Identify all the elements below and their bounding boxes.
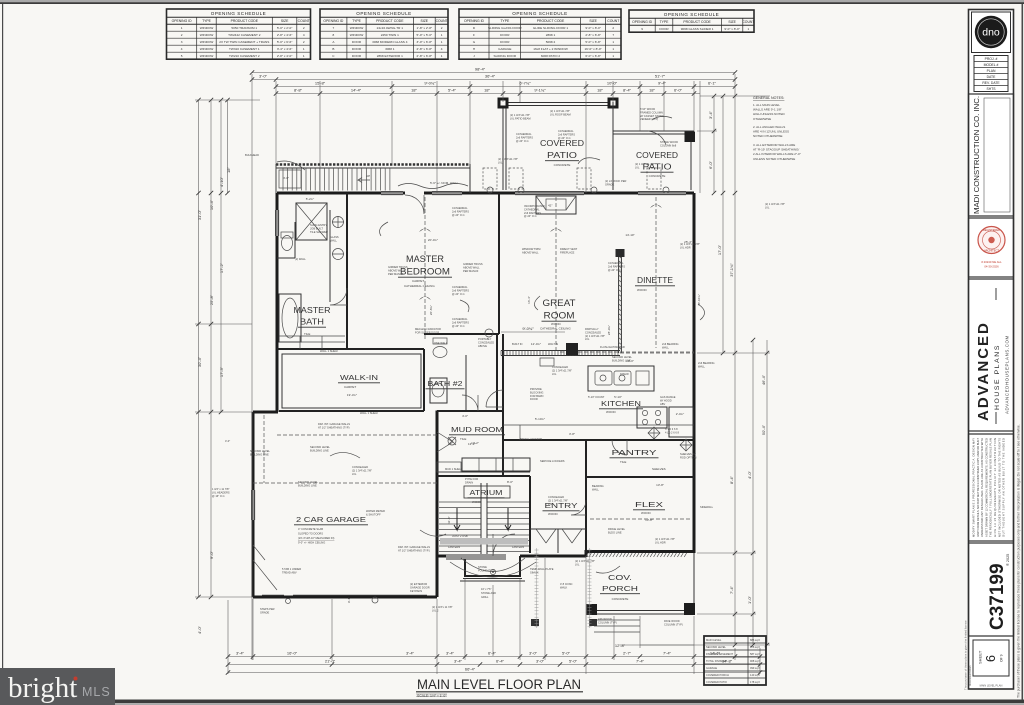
porch hatch ticks along wall xyxy=(586,553,687,557)
svg-text:18″: 18″ xyxy=(649,88,655,93)
stair treads flight 2 xyxy=(357,168,390,191)
svg-text:CATHEDRAL CEILING: CATHEDRAL CEILING xyxy=(404,284,435,288)
svg-text:16′ x 7′6″: 16′ x 7′6″ xyxy=(481,587,491,591)
red stamp seal xyxy=(978,227,1005,254)
covered patio 1 top edge xyxy=(503,102,613,104)
project info table xyxy=(974,56,1008,92)
svg-text:1′-8″ x 2′-8″: 1′-8″ x 2′-8″ xyxy=(417,26,433,30)
svg-text:9′-0″ +/- HIGH CEILING: 9′-0″ +/- HIGH CEILING xyxy=(298,541,325,545)
svg-text:DISHW: DISHW xyxy=(620,372,629,376)
svg-text:CONCRETE: CONCRETE xyxy=(554,163,571,167)
svg-text:MLS: MLS xyxy=(82,685,111,699)
svg-text:TYPE: TYPE xyxy=(352,19,362,23)
svg-text:DOOR: DOOR xyxy=(352,54,362,58)
legal fine print box xyxy=(969,434,1014,541)
svg-text:7′-4″: 7′-4″ xyxy=(729,585,734,594)
window: master bedroom top wall xyxy=(381,191,403,196)
svg-text:WINDOW: WINDOW xyxy=(200,47,214,51)
svg-text:3′-0″: 3′-0″ xyxy=(529,651,538,656)
kitchen island flush eating bar xyxy=(588,366,654,391)
svg-text:B: B xyxy=(332,47,334,51)
svg-text:SECOND LEVELBUILDING LINE: SECOND LEVELBUILDING LINE xyxy=(310,445,330,452)
C37199 plan number box xyxy=(969,543,1014,636)
svg-text:21′-0″: 21′-0″ xyxy=(325,659,336,664)
svg-text:10′-4″: 10′-4″ xyxy=(209,199,214,210)
svg-text:DOOR: DOOR xyxy=(352,47,362,51)
bottom dimension lines xyxy=(228,657,760,673)
svg-text:51′-7″: 51′-7″ xyxy=(655,74,666,79)
svg-text:H: H xyxy=(473,47,475,51)
svg-text:KITCHEN: KITCHEN xyxy=(601,399,641,408)
svg-text:OUT THOUGHT SUPPLY AN OTHER BU: OUT THOUGHT SUPPLY AN OTHER BUILT TO THE… xyxy=(1002,438,1006,537)
svg-text:9′-0¾″: 9′-0¾″ xyxy=(424,81,436,86)
atrium stair center stringer xyxy=(481,483,487,556)
stoop side step blocks xyxy=(531,619,539,626)
room label ATRIUM xyxy=(464,486,510,498)
svg-text:18″: 18″ xyxy=(484,88,490,93)
svg-text:WINDOW: WINDOW xyxy=(200,26,214,30)
svg-text:PANTRY: PANTRY xyxy=(612,448,657,457)
svg-text:3′-4″: 3′-4″ xyxy=(406,651,415,656)
svg-text:TW310 CASEMENT 1: TW310 CASEMENT 1 xyxy=(229,47,260,51)
entry door arc xyxy=(493,534,515,556)
svg-text:ADVANCEDHOUSEPLANS.COM: ADVANCEDHOUSEPLANS.COM xyxy=(1005,335,1010,414)
svg-text:66′-4″: 66′-4″ xyxy=(465,667,476,672)
svg-text:3′-4″: 3′-4″ xyxy=(708,110,713,119)
garage bottom-left corner braces xyxy=(253,545,277,590)
svg-text:8′-0″: 8′-0″ xyxy=(507,480,513,484)
svg-text:1: 1 xyxy=(303,47,305,51)
sheet bottom gray margin xyxy=(0,703,1024,705)
svg-text:1: 1 xyxy=(612,54,614,58)
svg-text:ARCHITECT: ARCHITECT xyxy=(984,249,999,253)
bath2 door arc xyxy=(462,395,478,411)
svg-text:24x16 AWNG-TR 1: 24x16 AWNG-TR 1 xyxy=(377,26,404,30)
svg-text:5′-10¾″: 5′-10¾″ xyxy=(535,417,545,421)
svg-text:WALT IN: WALT IN xyxy=(548,342,558,346)
ahp logo black circle xyxy=(975,16,1007,48)
svg-text:MECH/AC RADIATORFOR SLIDER DOO: MECH/AC RADIATORFOR SLIDER DOOR xyxy=(415,327,441,334)
svg-text:8: 8 xyxy=(333,33,335,37)
svg-text:UP: UP xyxy=(366,174,370,178)
wall: atrium top xyxy=(437,475,530,477)
svg-text:9′-4″: 9′-4″ xyxy=(347,597,351,603)
svg-text:16′-4″: 16′-4″ xyxy=(527,296,531,304)
fridge xyxy=(669,407,693,437)
svg-text:CONCRETE: CONCRETE xyxy=(612,597,629,601)
svg-text:WOOD: WOOD xyxy=(606,410,616,414)
svg-text:6′-7¾″: 6′-7¾″ xyxy=(519,81,531,86)
top dim extension verticals xyxy=(252,74,735,660)
svg-text:SECOND LEVELBUILDING LINE: SECOND LEVELBUILDING LINE xyxy=(612,355,632,362)
svg-text:WALL 1 SHELF: WALL 1 SHELF xyxy=(360,411,379,415)
round column markers on wall xyxy=(487,187,493,193)
svg-text:5′-6″ +/- NOM. HIGH: 5′-6″ +/- NOM. HIGH xyxy=(430,181,457,185)
svg-text:28′-9¾″: 28′-9¾″ xyxy=(607,325,611,335)
range xyxy=(637,407,667,428)
exterior wall: front portico recess xyxy=(465,556,520,576)
linen shelves above walk-in xyxy=(279,336,345,349)
svg-text:2′-8″ x 6′-8″: 2′-8″ x 6′-8″ xyxy=(417,47,433,51)
svg-text:SHTS: SHTS xyxy=(986,87,996,91)
svg-text:PRODUCT CODE: PRODUCT CODE xyxy=(683,20,711,24)
kitchen counter along great room xyxy=(501,351,620,356)
exterior wall: garage bottom xyxy=(253,596,437,599)
svg-text:1: 1 xyxy=(612,40,614,44)
svg-text:2′-8″ x 6′-8″: 2′-8″ x 6′-8″ xyxy=(585,33,601,37)
svg-text:5′-4″: 5′-4″ xyxy=(448,88,457,93)
svg-text:OPENING SCHEDULE: OPENING SCHEDULE xyxy=(211,11,266,16)
stair down arrows xyxy=(454,508,460,530)
svg-text:DIM. INT. GARAGE WALLSAT 1/2″: DIM. INT. GARAGE WALLSAT 1/2″ SHEATHING … xyxy=(318,422,350,429)
svg-text:WOOD: WOOD xyxy=(472,500,482,504)
svg-text:GREAT: GREAT xyxy=(543,298,577,308)
svg-text:13′-8″: 13′-8″ xyxy=(645,518,653,522)
svg-text:16′-0″: 16′-0″ xyxy=(287,651,298,656)
svg-text:MASTER: MASTER xyxy=(406,254,444,264)
svg-text:3′-4″: 3′-4″ xyxy=(454,659,463,664)
svg-text:BUILT IN: BUILT IN xyxy=(512,342,523,346)
svg-text:4′-0″: 4′-0″ xyxy=(462,414,468,418)
svg-text:18″: 18″ xyxy=(597,88,603,93)
glass wall note line xyxy=(329,222,331,240)
opening schedule table at x=166.5 xyxy=(167,9,311,59)
svg-text:2: 2 xyxy=(441,26,443,30)
svg-text:6′-4″: 6′-4″ xyxy=(488,651,497,656)
right dimension lines xyxy=(714,96,767,645)
svg-text:9′-0″ x 8′-0″: 9′-0″ x 8′-0″ xyxy=(585,26,601,30)
svg-text:MADI CONSTRUCTION CO. INC.: MADI CONSTRUCTION CO. INC. xyxy=(972,96,981,214)
svg-text:12′-8″: 12′-8″ xyxy=(615,643,626,648)
svg-text:LANTERN: LANTERN xyxy=(448,545,460,549)
stair landing box xyxy=(279,170,301,188)
svg-text:COVERED PORCH: COVERED PORCH xyxy=(706,673,729,677)
svg-text:FLEX: FLEX xyxy=(635,500,663,509)
svg-text:SECOND LEVELBUILDING LINE: SECOND LEVELBUILDING LINE xyxy=(298,480,318,487)
svg-text:18″: 18″ xyxy=(411,88,417,93)
wall: entry left xyxy=(529,476,531,553)
svg-text:2′-0¾″: 2′-0¾″ xyxy=(676,412,684,416)
svg-text:30′-4″: 30′-4″ xyxy=(197,356,202,367)
svg-text:FINISHED BASEMENT: FINISHED BASEMENT xyxy=(706,652,734,656)
master bath door arc xyxy=(330,288,347,305)
svg-text:DOOR: DOOR xyxy=(500,40,510,44)
svg-text:SIZE: SIZE xyxy=(728,20,736,24)
svg-text:4′-0″: 4′-0″ xyxy=(283,176,289,180)
svg-text:SECOND LEVELBUILDING LINE: SECOND LEVELBUILDING LINE xyxy=(250,449,270,456)
wall: kitchen west xyxy=(502,334,504,476)
svg-text:WALL 1 SHELF: WALL 1 SHELF xyxy=(320,349,339,353)
walk-in inner wall lines xyxy=(282,354,421,408)
exterior wall: front wall left of portico xyxy=(437,555,465,558)
svg-text:BATH: BATH xyxy=(300,317,324,326)
svg-text:5050 TRANSOM 1: 5050 TRANSOM 1 xyxy=(231,26,257,30)
svg-text:9′-0¾″: 9′-0¾″ xyxy=(522,326,534,331)
svg-text:2X TW TWIN CASEMENT + TRANS: 2X TW TWIN CASEMENT + TRANS xyxy=(219,40,269,44)
svg-text:5′-0″ x 2′-0″: 5′-0″ x 2′-0″ xyxy=(277,26,293,30)
mud room door arcs xyxy=(437,432,453,452)
svg-text:LANTERN: LANTERN xyxy=(512,545,524,549)
svg-text:2′-8″ x 6′-8″: 2′-8″ x 6′-8″ xyxy=(417,54,433,58)
svg-text:13′-8″: 13′-8″ xyxy=(656,483,664,487)
svg-text:MUD ROOM: MUD ROOM xyxy=(451,425,503,434)
svg-text:18″: 18″ xyxy=(226,166,231,172)
stair UP arrow xyxy=(358,177,370,182)
deck edge band above stairs xyxy=(276,163,470,166)
svg-text:WINDOW: WINDOW xyxy=(350,33,364,37)
svg-text:WOOD: WOOD xyxy=(551,322,561,326)
svg-text:TILE: TILE xyxy=(304,332,310,336)
svg-text:878 sq ft: 878 sq ft xyxy=(750,645,760,649)
wall: master suite bottom / walk-in top xyxy=(277,348,424,350)
svg-text:9′-1¾″: 9′-1¾″ xyxy=(534,88,546,93)
svg-text:MODIFIED 6/4/25: MODIFIED 6/4/25 xyxy=(968,665,972,686)
svg-text:20′-8¾″: 20′-8¾″ xyxy=(429,305,433,315)
svg-text:3′-0″: 3′-0″ xyxy=(259,74,268,79)
svg-text:C37199: C37199 xyxy=(987,563,1008,630)
wall: master bath - bedroom divider xyxy=(346,193,348,349)
sheet top border line xyxy=(0,2,1024,4)
sheet right border line xyxy=(1022,4,1024,700)
vanity wall + sinks xyxy=(329,210,331,302)
svg-text:3068 1: 3068 1 xyxy=(385,47,395,51)
kitchen sink symbols (wall counter) xyxy=(540,358,554,366)
svg-text:BENCH LOCKERS: BENCH LOCKERS xyxy=(520,437,542,441)
svg-text:2: 2 xyxy=(181,33,183,37)
exterior wall: garage left xyxy=(252,412,255,597)
opening schedule table at x=629 xyxy=(629,10,754,32)
svg-text:F: F xyxy=(473,33,475,37)
sheet bottom border line xyxy=(0,700,1024,704)
svg-text:(23′-4″x28′-10″ MEASURED IN): (23′-4″x28′-10″ MEASURED IN) xyxy=(298,536,335,540)
svg-text:SECOND LEVEL: SECOND LEVEL xyxy=(706,645,726,649)
svg-text:NOT INCLUDED OTHERWISE OR NOTE: NOT INCLUDED OTHERWISE OR NOTED AS BUILD… xyxy=(997,438,1001,537)
svg-text:DOOR: DOOR xyxy=(659,27,669,31)
svg-text:COUNT: COUNT xyxy=(298,19,310,23)
exterior wall: house left (master suite) xyxy=(276,193,279,412)
stair treads flight 1 xyxy=(283,168,352,191)
fireplace xyxy=(536,196,576,214)
svg-text:REGISTERED: REGISTERED xyxy=(983,228,1000,232)
exterior wall: entry front xyxy=(520,550,586,557)
exterior wall: flex bottom xyxy=(585,550,696,553)
svg-text:GLIDE SLIDING DOOR 1: GLIDE SLIDING DOOR 1 xyxy=(533,26,569,30)
svg-text:9′-0″: 9′-0″ xyxy=(209,550,214,559)
covered patio 2 top edge xyxy=(613,130,694,132)
svg-text:5′-0″ x 6′-6″: 5′-0″ x 6′-6″ xyxy=(277,40,293,44)
svg-text:UNDERSTAND ANY DESIGN USED. PL: UNDERSTAND ANY DESIGN USED. PLANS ARE AS… xyxy=(980,438,984,537)
svg-text:FLUSH EATING BAR: FLUSH EATING BAR xyxy=(600,345,625,349)
svg-text:3: 3 xyxy=(181,40,183,44)
svg-text:7: 7 xyxy=(612,33,614,37)
second level building line (garage) xyxy=(253,415,437,483)
svg-text:1: 1 xyxy=(181,26,183,30)
svg-text:4′-10″: 4′-10″ xyxy=(219,176,224,187)
svg-text:MASTER: MASTER xyxy=(294,306,331,315)
exterior wall: house right xyxy=(693,193,696,552)
svg-text:886 sq ft: 886 sq ft xyxy=(750,638,760,642)
svg-text:2′-8″ x 4′-6″: 2′-8″ x 4′-6″ xyxy=(277,33,293,37)
svg-text:3′-0″ x 6′-8″: 3′-0″ x 6′-8″ xyxy=(417,40,433,44)
ceiling ridge dashed centerlines xyxy=(424,197,426,340)
svg-text:3. ALL EXTERIOR WALLS AREAT ′R: 3. ALL EXTERIOR WALLS AREAT ′R-19′ STAGG… xyxy=(753,143,801,161)
svg-text:SLIDING DOOR: SLIDING DOOR xyxy=(494,54,517,58)
svg-text:20′-0¾″: 20′-0¾″ xyxy=(428,238,438,242)
svg-text:OPENING ID: OPENING ID xyxy=(632,20,653,24)
covered patio 1 left edge xyxy=(503,102,506,190)
patio column footing dashed boxes xyxy=(483,168,497,189)
top dimension line 3 xyxy=(276,86,735,88)
svg-text:MAIN LEVEL FLOOR PLAN: MAIN LEVEL FLOOR PLAN xyxy=(417,677,581,692)
svg-text:ADVANCED: ADVANCED xyxy=(975,321,992,421)
svg-text:15′-8″: 15′-8″ xyxy=(315,81,326,86)
svg-text:7′-4″: 7′-4″ xyxy=(636,659,645,664)
svg-text:WINDOW: WINDOW xyxy=(200,40,214,44)
svg-text:TYPE: TYPE xyxy=(660,20,670,24)
svg-text:19′-3¾″: 19′-3¾″ xyxy=(347,393,357,397)
svg-text:9068 GLASS SLIDER 1: 9068 GLASS SLIDER 1 xyxy=(681,27,714,31)
sheet number box xyxy=(973,640,1009,676)
atrium landing gray sill xyxy=(440,538,528,545)
svg-text:3′-8″: 3′-8″ xyxy=(569,432,575,436)
wall: walk-in / bath2 divider xyxy=(423,349,425,411)
covered patio 2 left edge xyxy=(612,102,614,190)
svg-text:6′-0″ x 6′-8″: 6′-0″ x 6′-8″ xyxy=(585,54,601,58)
opening schedule table at x=320 xyxy=(320,9,448,59)
svg-text:SIZE: SIZE xyxy=(421,19,429,23)
wall: bath2 linen divider xyxy=(465,355,467,411)
svg-text:SCALE: 1/4″ = 1′-0″: SCALE: 1/4″ = 1′-0″ xyxy=(417,694,447,698)
svg-text:36′-4″: 36′-4″ xyxy=(485,74,496,79)
svg-text:5′-2¾″: 5′-2¾″ xyxy=(306,197,314,201)
atrium stair treads right flight xyxy=(487,502,529,552)
shower with X xyxy=(296,203,327,240)
svg-text:25′-8″: 25′-8″ xyxy=(209,294,214,305)
sheet top gray margin xyxy=(0,0,1024,2)
svg-text:dno: dno xyxy=(982,27,1000,39)
svg-text:31′-0″: 31′-0″ xyxy=(197,209,202,220)
svg-text:3′-4″ x 4′-6″: 3′-4″ x 4′-6″ xyxy=(277,47,293,51)
svg-text:2450 TWIN 1: 2450 TWIN 1 xyxy=(381,33,399,37)
svg-text:SLOPED TO DOORS: SLOPED TO DOORS xyxy=(298,532,323,536)
svg-text:TW210 CASEMENT 2: TW210 CASEMENT 2 xyxy=(229,54,260,58)
svg-text:COVERED: COVERED xyxy=(636,151,678,160)
wall: entry closet xyxy=(530,529,586,553)
svg-text:DINETTE: DINETTE xyxy=(637,276,673,285)
wall: entry / flex left + pantry left xyxy=(585,440,587,553)
svg-text:140 sq ft: 140 sq ft xyxy=(750,673,760,677)
svg-text:17′-2″: 17′-2″ xyxy=(219,262,224,273)
svg-text:16′-0″ x 8′-0″: 16′-0″ x 8′-0″ xyxy=(584,47,602,51)
svg-text:MAIN LEVEL PLAN: MAIN LEVEL PLAN xyxy=(980,684,1003,688)
svg-text:CARPET: CARPET xyxy=(412,279,424,283)
atrium stair treads left flight xyxy=(439,502,481,552)
dog wash xyxy=(448,437,456,445)
svg-text:COUNT: COUNT xyxy=(742,20,754,24)
svg-text:STONE WOODCOLUMN 8x8: STONE WOODCOLUMN 8x8 xyxy=(660,140,678,147)
svg-text:6068 PATIO 2: 6068 PATIO 2 xyxy=(541,54,560,58)
svg-text:1′-0″: 1′-0″ xyxy=(747,595,752,604)
title block outer border xyxy=(969,10,1014,690)
second level building line (flex) xyxy=(590,518,690,520)
bath2 toilet xyxy=(433,347,447,358)
svg-text:7: 7 xyxy=(333,26,335,30)
svg-text:THE PERIODICALLY 7 FULL UNDERS: THE PERIODICALLY 7 FULL UNDERSTATE PLAN … xyxy=(989,438,993,537)
covered patio 2 right edge xyxy=(690,134,692,190)
wall: pantry bottom / flex top xyxy=(586,476,694,478)
svg-text:SHELVES W/ROD OPTION: SHELVES W/ROD OPTION xyxy=(680,452,697,459)
mud bench lockers xyxy=(462,458,530,471)
porch slab edges xyxy=(594,611,694,615)
wall: master bedroom right xyxy=(498,193,500,334)
svg-text:TW2442 CASEMENT 2: TW2442 CASEMENT 2 xyxy=(228,33,261,37)
svg-text:PLAN: PLAN xyxy=(987,69,996,73)
svg-text:6′-0″: 6′-0″ xyxy=(674,88,683,93)
svg-text:GENERAL NOTES:: GENERAL NOTES: xyxy=(753,96,784,100)
exterior wall: garage top step xyxy=(253,411,278,414)
svg-text:SIZE: SIZE xyxy=(281,19,289,23)
svg-text:SIDEWALL: SIDEWALL xyxy=(700,505,714,509)
area summary table xyxy=(704,636,766,685)
svg-text:DIM. INT. GARAGE WALLSAT 1/2″: DIM. INT. GARAGE WALLSAT 1/2″ SHEATHING … xyxy=(398,545,430,552)
bath2 sink xyxy=(432,383,444,397)
svg-text:TILE: TILE xyxy=(620,460,626,464)
ahp logo box xyxy=(972,12,1011,53)
svg-text:DATE: DATE xyxy=(987,75,997,79)
sheet left border line xyxy=(2,4,3,702)
stoop center extension line xyxy=(492,585,494,656)
svg-text:8′-4″: 8′-4″ xyxy=(729,475,734,484)
ADVANCED HOUSE PLANS box xyxy=(969,279,1014,431)
svg-text:SLIDING GLASS DOOR: SLIDING GLASS DOOR xyxy=(488,26,522,30)
svg-text:10′-0″: 10′-0″ xyxy=(607,81,618,86)
svg-text:5′-0″: 5′-0″ xyxy=(569,659,578,664)
svg-text:7′-4″: 7′-4″ xyxy=(663,651,672,656)
great room / dinette stud wall xyxy=(619,253,622,353)
svg-text:MODEL #: MODEL # xyxy=(984,63,999,67)
svg-text:12′-0¾″: 12′-0¾″ xyxy=(531,342,541,346)
master bath toilet room xyxy=(277,222,295,258)
svg-text:# 20240 NE ALL: # 20240 NE ALL xyxy=(981,260,1002,264)
svg-text:2: 2 xyxy=(303,40,305,44)
atrium window bottom xyxy=(446,554,506,559)
svg-text:6′-1″: 6′-1″ xyxy=(708,81,717,86)
svg-text:37′-1¾″: 37′-1¾″ xyxy=(729,263,734,277)
tub xyxy=(279,294,301,342)
svg-text:COUNT: COUNT xyxy=(436,19,448,23)
svg-text:908 sq ft: 908 sq ft xyxy=(750,659,760,663)
svg-text:OPENING SCHEDULE: OPENING SCHEDULE xyxy=(664,12,719,17)
patio post top-left xyxy=(498,98,509,109)
svg-text:WOOD: WOOD xyxy=(637,288,647,292)
svg-text:ROOM: ROOM xyxy=(544,310,575,320)
svg-text:GARAGE: GARAGE xyxy=(706,666,717,670)
window: master bath left wall xyxy=(275,210,280,236)
svg-text:The purchaser of these plans i: The purchaser of these plans is given th… xyxy=(1017,424,1021,698)
svg-text:COVERED PATIO: COVERED PATIO xyxy=(706,680,727,684)
svg-text:8′-4″: 8′-4″ xyxy=(623,88,632,93)
svg-text:STONE AND: STONE AND xyxy=(481,591,496,595)
svg-text:PROJ. #: PROJ. # xyxy=(985,57,998,61)
svg-text:2′-7″: 2′-7″ xyxy=(623,651,632,656)
svg-text:OPENING ID: OPENING ID xyxy=(323,19,344,23)
svg-text:WINDOW: WINDOW xyxy=(350,26,364,30)
svg-text:TOTAL FINISHED: TOTAL FINISHED xyxy=(706,659,727,663)
svg-text:COUNT: COUNT xyxy=(607,19,619,23)
svg-text:PORCH: PORCH xyxy=(602,584,638,593)
leader curves xyxy=(277,161,305,170)
svg-text:5′-0″ x 5′-0″: 5′-0″ x 5′-0″ xyxy=(417,33,433,37)
